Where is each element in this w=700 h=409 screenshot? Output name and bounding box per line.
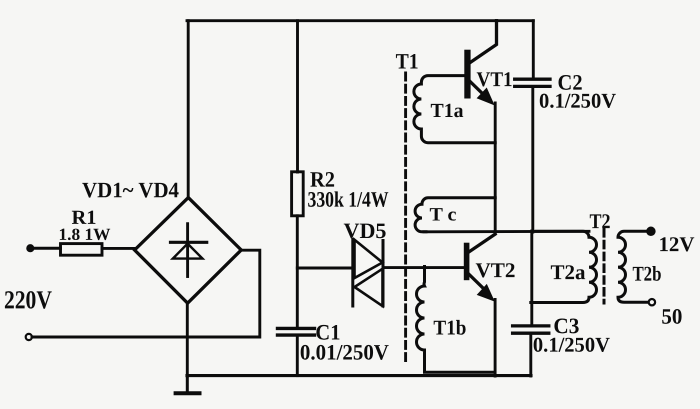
wire terminal to R1 <box>32 247 61 250</box>
wire VT2 emitter vertical <box>494 300 497 377</box>
svg-text:T2: T2 <box>589 209 610 233</box>
svg-text:50: 50 <box>661 304 682 329</box>
wire midpoint to C3 <box>530 231 533 324</box>
wire right branch top <box>532 21 535 78</box>
winding Tc <box>415 198 495 232</box>
wire VD5 to VT2 base <box>383 266 464 269</box>
capacitor C2 <box>515 79 550 86</box>
ground <box>176 376 200 393</box>
svg-text:0.01/250V: 0.01/250V <box>300 339 389 364</box>
capacitor C1 <box>278 328 315 335</box>
wire R2 branch upper <box>296 21 299 172</box>
diode inside bridge <box>171 224 207 277</box>
resistor R2 <box>292 172 304 216</box>
wire bottom rail <box>187 374 531 377</box>
svg-text:0.1/250V: 0.1/250V <box>533 333 610 357</box>
wire bridge bottom to rail <box>186 303 189 376</box>
wire R1 to bridge <box>102 247 135 250</box>
wire neutral to bridge AC2 <box>32 250 260 337</box>
svg-text:220V: 220V <box>4 285 52 314</box>
winding T2a <box>531 231 597 302</box>
svg-text:T2a: T2a <box>550 260 586 284</box>
resistor R1 <box>61 244 103 256</box>
winding T1a <box>414 76 495 143</box>
wire top rail <box>187 19 533 22</box>
capacitor C3 <box>513 326 549 333</box>
wire C3 to rail <box>529 335 532 376</box>
transistor VT1 <box>464 21 496 104</box>
transformer T2 core (dashed) <box>603 230 606 304</box>
rectifier bridge VD1-VD4 <box>135 198 242 304</box>
wire VT1 emitter vertical <box>494 103 497 233</box>
wire midpoint (Tc to T2a) <box>424 230 589 233</box>
wire C1 to bottom rail <box>296 337 299 376</box>
svg-text:T2b: T2b <box>632 262 661 286</box>
wire VD5 left (R2/C1 node to diac) <box>297 267 352 270</box>
node 12V terminal <box>647 227 655 235</box>
svg-text:330k 1/4W: 330k 1/4W <box>307 187 388 212</box>
svg-text:1.8 1W: 1.8 1W <box>58 225 110 244</box>
svg-text:VT2: VT2 <box>475 258 515 282</box>
svg-text:VT1: VT1 <box>477 67 513 91</box>
svg-text:VD1~ VD4: VD1~ VD4 <box>82 177 179 202</box>
svg-text:12V: 12V <box>658 232 694 256</box>
svg-text:T1b: T1b <box>433 316 466 340</box>
svg-text:VD5: VD5 <box>343 218 386 243</box>
svg-text:0.1/250V: 0.1/250V <box>539 89 616 113</box>
diac VD5 <box>353 240 383 307</box>
wire R2 to C1 <box>296 216 299 327</box>
winding T2b <box>618 231 648 302</box>
node A (220V live terminal) <box>27 245 34 252</box>
node 50 terminal <box>649 299 655 305</box>
winding T1b <box>417 267 494 373</box>
wire C2 to midpoint <box>531 88 534 232</box>
transistor VT2 <box>464 234 495 300</box>
svg-text:T c: T c <box>429 205 456 226</box>
wire left vertical (bridge top to rail) <box>187 21 190 198</box>
svg-text:T1: T1 <box>396 49 419 74</box>
transformer T1 core (dashed) <box>404 73 407 362</box>
node B (220V neutral terminal) <box>26 334 32 340</box>
svg-text:T1a: T1a <box>431 100 464 122</box>
